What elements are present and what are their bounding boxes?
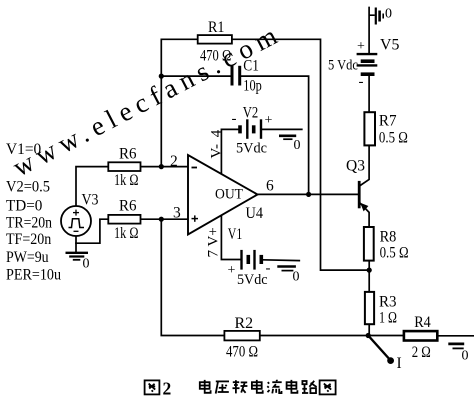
svg-text:2: 2 [163,379,172,398]
ground node 0 top right (rotated) [369,8,383,25]
resistor R6 upper 1k [108,146,140,190]
svg-text:2 Ω: 2 Ω [412,344,431,361]
wire op-amp output to Q3 base [258,193,358,195]
junction dot C1 left [159,74,164,79]
svg-text:OUT: OUT [215,187,243,203]
ground right of V2 [279,136,296,139]
svg-text:R3: R3 [379,294,397,311]
svg-text:R6: R6 [119,198,137,215]
resistor R7 0.5ohm [364,112,408,146]
battery V1 5Vdc [228,226,271,288]
wire R6 lower left loop to V3 bottom [76,219,108,243]
wire C1 branch right, down to output node [241,76,308,194]
svg-text:C1: C1 [243,58,259,75]
svg-text:PW=9u: PW=9u [6,249,49,266]
wire V3 top to R6 [76,167,108,206]
wire top R1 branch right, down to R8-R3 junction [232,39,369,270]
junction dot bottom rail [366,333,371,338]
wire R7 to Q3 collector [360,145,370,186]
wire R3 bottom to bottom rail [368,324,370,335]
wire R4 right to ground [437,335,473,337]
svg-text:1k Ω: 1k Ω [114,225,139,242]
svg-text:1k Ω: 1k Ω [114,172,139,189]
svg-text:1 Ω: 1 Ω [379,310,397,327]
svg-text:R4: R4 [414,314,431,331]
junction dot node 2 [159,164,164,169]
wire R2 right to bottom junction and R4 [260,335,404,337]
wire node2 to op-amp [141,166,189,168]
svg-text:U4: U4 [246,205,264,222]
svg-text:3: 3 [173,205,181,222]
battery V5 5Vdc [328,37,400,91]
svg-text:0: 0 [83,257,90,272]
svg-text:0.5 Ω: 0.5 Ω [379,130,408,147]
svg-text:5 Vdc: 5 Vdc [328,58,358,74]
svg-text:10p: 10p [243,78,262,95]
resistor R2 470ohm [224,315,259,361]
svg-text:5Vdc: 5Vdc [236,141,267,157]
svg-text:Q3: Q3 [346,158,365,175]
svg-text:V- 4: V- 4 [209,129,225,158]
svg-text:7 V+: 7 V+ [206,227,222,257]
wire V2 right to ground [262,128,301,130]
ground below V3 [66,253,89,260]
svg-text:0: 0 [462,349,469,364]
svg-text:V5: V5 [380,37,400,54]
svg-text:R8: R8 [380,229,397,246]
wire R8 bottom to junction [368,261,370,271]
battery V2 5Vdc [232,105,273,157]
wire node3 to op-amp [141,218,189,220]
resistor R8 0.5ohm [364,227,409,262]
junction dot R8-R3 [367,268,372,273]
svg-text:+: + [228,263,236,278]
ground right of R4 [448,344,464,349]
svg-text:R1: R1 [208,19,225,36]
wire node3 down to R2 bottom rail [161,219,224,335]
svg-text:R6: R6 [119,146,137,163]
wire V1 right to ground [263,259,299,262]
caption figure 2 text (drawn strokes) [145,380,336,395]
svg-text:0: 0 [294,138,301,153]
svg-text:V1: V1 [228,226,243,243]
transistor Q3 [346,158,368,212]
svg-text:I: I [397,355,402,372]
svg-text:0.5 Ω: 0.5 Ω [380,245,409,262]
junction dot node 3 [159,217,164,222]
wire C1 branch left [161,75,230,77]
pulse source V3 [61,192,99,237]
wire pin7 down to V1 [221,215,240,259]
svg-text:V2=0.5: V2=0.5 [6,179,50,196]
capacitor C1 10p [232,58,262,95]
svg-text:5Vdc: 5Vdc [237,272,268,288]
op-amp U4 [188,155,263,235]
svg-text:R7: R7 [379,113,397,130]
svg-text:-: - [359,74,364,90]
wire junction to R3 [368,270,370,292]
svg-text:+: + [357,39,365,54]
V3 parameter labels [6,141,61,284]
svg-text:PER=10u: PER=10u [6,267,61,284]
svg-text:470 Ω: 470 Ω [226,344,258,361]
wire V5 top to ground node [368,8,370,54]
svg-text:TD=0: TD=0 [6,198,43,215]
ground right of V1 [277,267,296,271]
resistor R3 1ohm [365,292,397,327]
resistor R6 lower 1k [108,198,140,243]
svg-text:R2: R2 [235,315,254,332]
svg-text:0: 0 [385,7,392,22]
wire pin4 up to V2 [221,129,238,174]
wire top R1 branch left [161,39,197,166]
svg-text:6: 6 [266,178,274,195]
svg-text:V2: V2 [243,105,259,122]
resistor R4 2ohm [404,314,437,361]
svg-text:V3: V3 [82,192,99,209]
svg-text:-: - [232,111,237,127]
resistor R1 470ohm [198,19,232,65]
svg-text:0: 0 [293,270,300,285]
wire V3 bottom to ground [75,236,77,253]
svg-text:TF=20n: TF=20n [6,231,52,248]
svg-text:2: 2 [170,153,178,170]
current probe I [368,336,401,373]
wire Q3 emitter to R8 [360,203,369,227]
svg-text:V1=0: V1=0 [6,141,41,158]
junction dot output node 6 [306,192,311,197]
wire V5 bottom to R7 [368,75,370,112]
svg-text:+: + [265,113,273,128]
svg-text:470 Ω: 470 Ω [200,48,231,65]
svg-text:TR=20n: TR=20n [6,215,52,232]
